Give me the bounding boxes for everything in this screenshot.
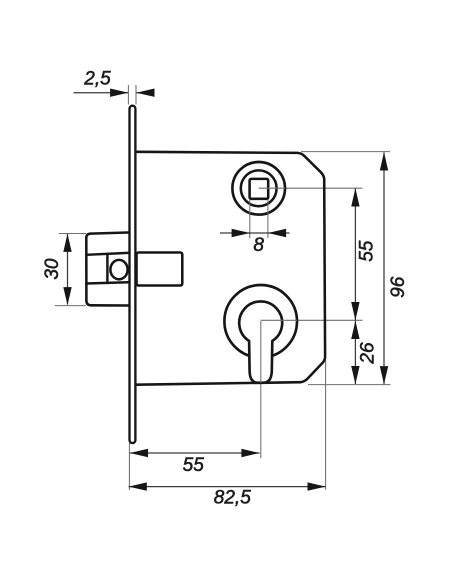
svg-text:55: 55 bbox=[183, 455, 205, 476]
svg-text:96: 96 bbox=[388, 276, 409, 298]
svg-text:30: 30 bbox=[42, 258, 63, 280]
svg-text:55: 55 bbox=[357, 240, 378, 262]
svg-text:26: 26 bbox=[357, 342, 378, 365]
svg-text:2,5: 2,5 bbox=[83, 68, 111, 89]
svg-text:8: 8 bbox=[253, 235, 264, 256]
svg-text:82,5: 82,5 bbox=[214, 488, 251, 509]
